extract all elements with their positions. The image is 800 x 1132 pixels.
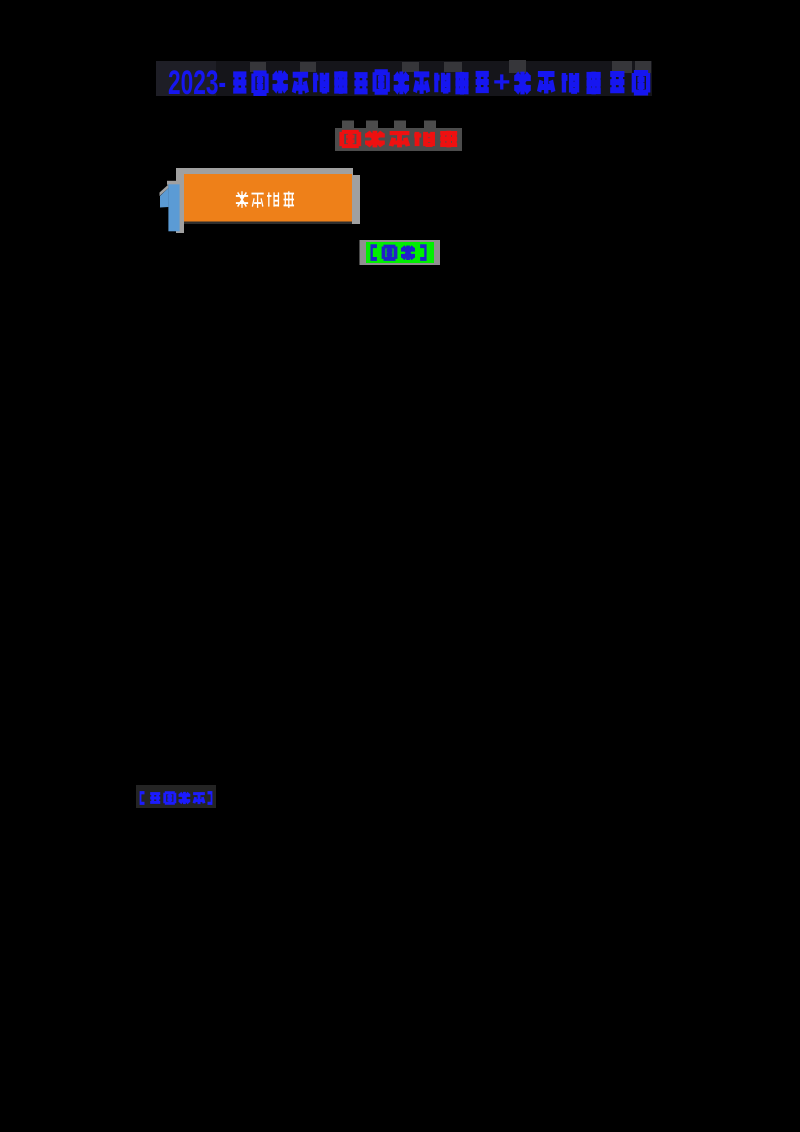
blue bottom label xyxy=(141,793,145,804)
white script text xyxy=(236,191,248,208)
blue numeral 1 xyxy=(160,188,168,208)
orange banner rect xyxy=(184,174,352,222)
dark shading behind bottom label xyxy=(136,785,216,808)
red subtitle xyxy=(342,132,359,146)
grey back rect of banner xyxy=(176,168,353,222)
grey right strip xyxy=(352,175,360,224)
dark bottom strip xyxy=(184,221,352,224)
green highlight xyxy=(366,242,434,263)
grey shading behind red subtitle xyxy=(335,128,462,151)
svg-text:2023-: 2023- xyxy=(168,64,226,102)
blue label text xyxy=(372,246,377,259)
svg-text:+: + xyxy=(493,66,511,99)
faint shading band behind title xyxy=(156,61,652,96)
grey slab above flag xyxy=(160,185,169,197)
grey strip behind numeral xyxy=(176,174,184,233)
grey step above stem xyxy=(167,181,181,185)
grey box around green label xyxy=(360,240,441,265)
